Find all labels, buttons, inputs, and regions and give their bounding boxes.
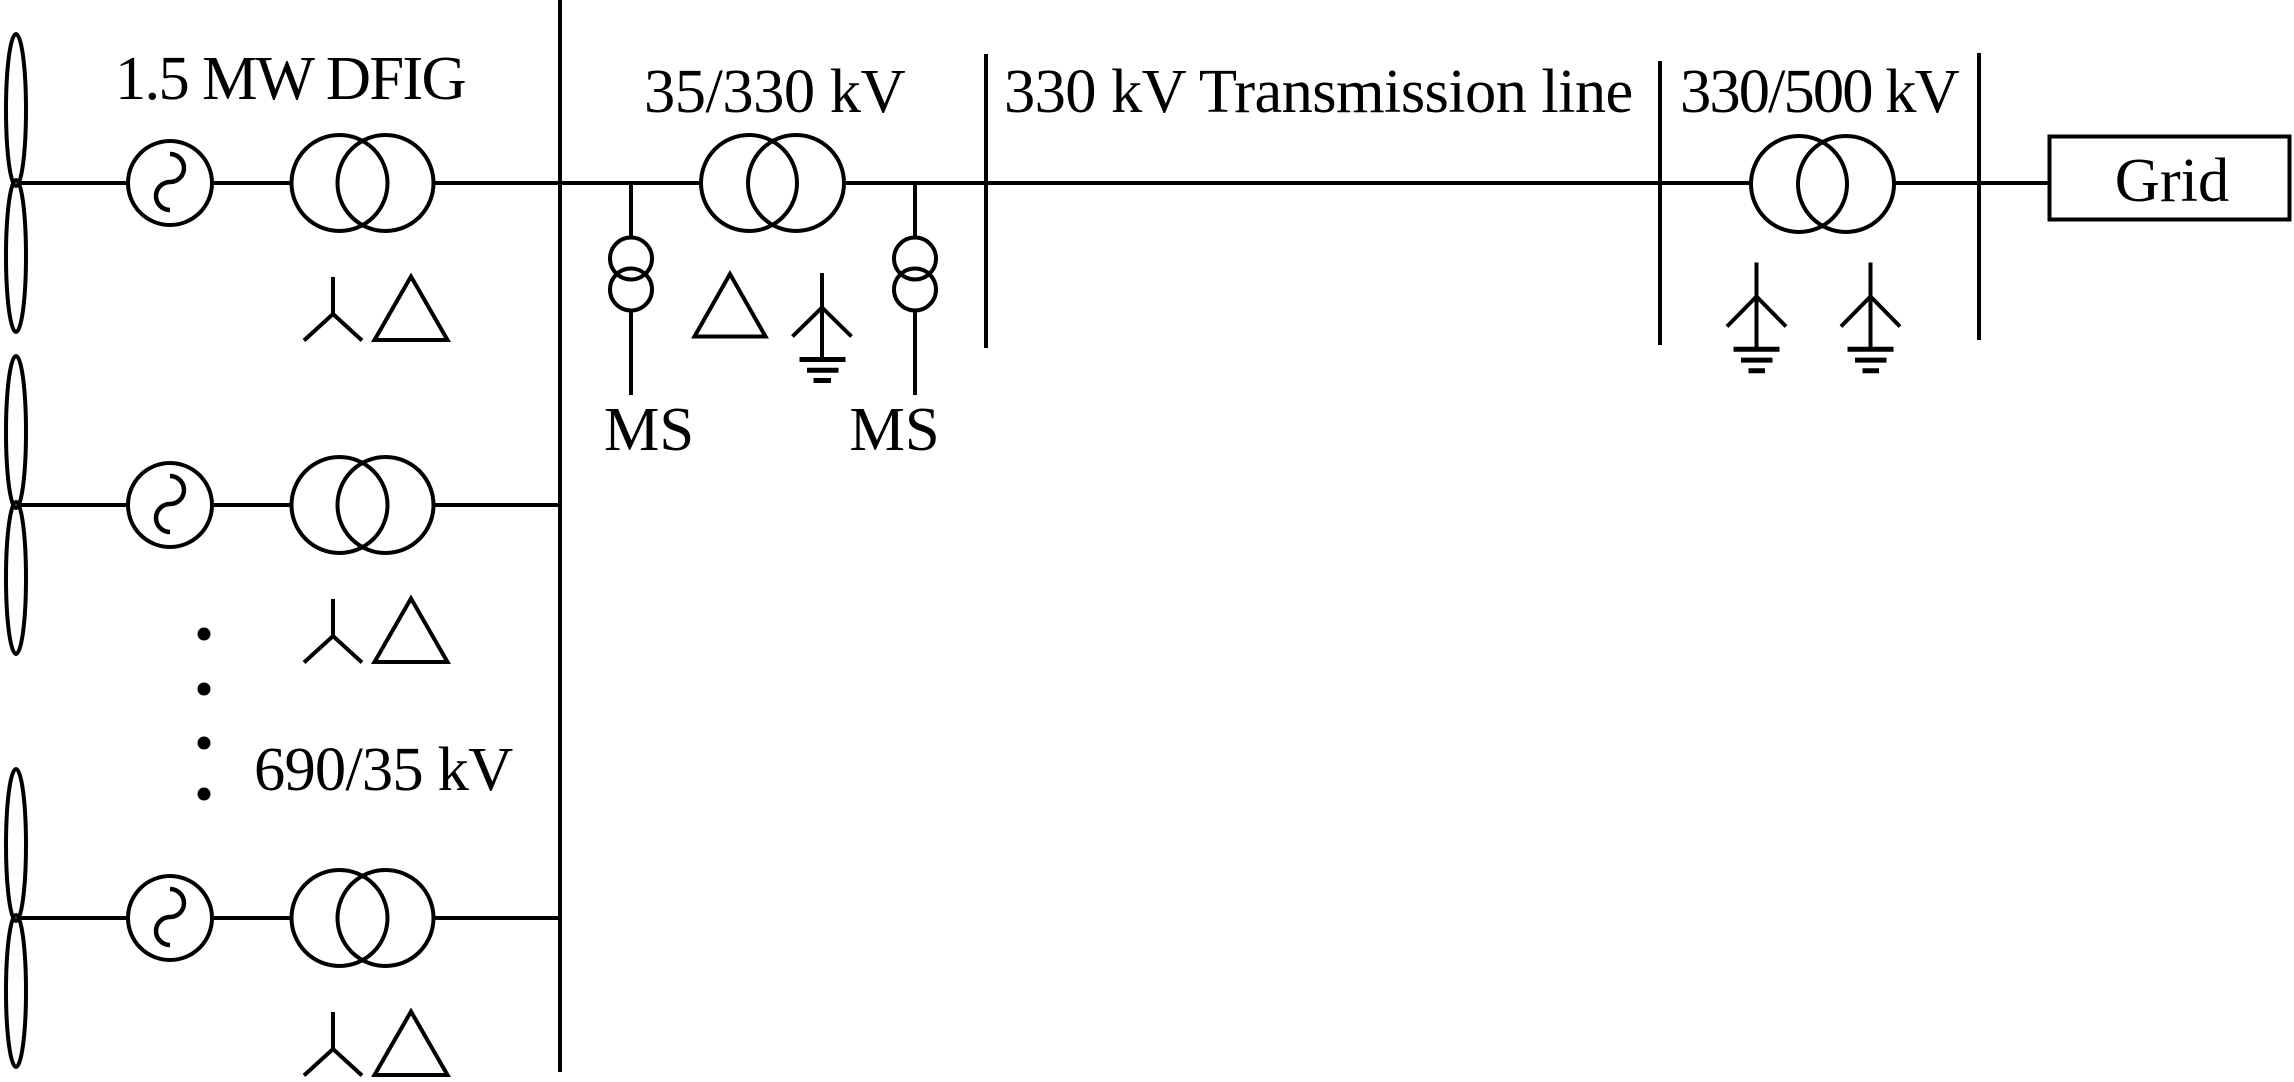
svg-text:35/330 kV: 35/330 kV [644, 56, 905, 126]
svg-text:330/500 kV: 330/500 kV [1680, 56, 1960, 126]
svg-text:1.5 MW DFIG: 1.5 MW DFIG [115, 43, 466, 113]
svg-text:330 kV Transmission line: 330 kV Transmission line [1004, 56, 1633, 126]
svg-text:Grid: Grid [2115, 145, 2230, 215]
svg-text:690/35 kV: 690/35 kV [254, 734, 513, 804]
svg-text:MS: MS [849, 394, 939, 464]
svg-text:MS: MS [604, 394, 694, 464]
